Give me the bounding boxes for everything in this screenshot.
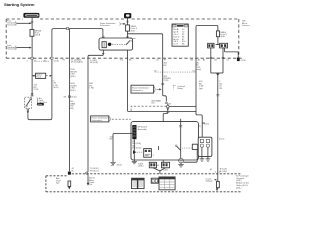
- legend table B (bottom left): [138, 178, 144, 188]
- svg-text:30 A: 30 A: [220, 35, 225, 38]
- in-line connector ticks on fused branch: [161, 84, 164, 85]
- connector (black) at border junction: [237, 58, 247, 62]
- battery positive labels above bottom box: [220, 169, 228, 173]
- svg-text:S204: S204: [204, 123, 210, 125]
- splice pack callout between wires: [32, 73, 52, 79]
- svg-text:(go): (go): [199, 88, 203, 90]
- PNP gear selector arrow: [133, 150, 143, 154]
- ignition switch output loop wire: [27, 30, 52, 120]
- connector (dark) where ignition1 wire enters bottom box: [68, 168, 75, 175]
- wires merging below PNP connectors: [153, 168, 169, 174]
- PNP right contact branch (pin stub and contact wire): [175, 119, 182, 159]
- wire: battery feed (left vertical): [31, 18, 33, 93]
- callout: Power Distribution Schematics (mid): [131, 85, 162, 93]
- starter solenoid S terminal arrow: [87, 174, 96, 186]
- wire label 1740 OG (lower): [70, 83, 77, 92]
- svg-text:RD: RD: [152, 103, 156, 105]
- wire: ignition feed top corner to long horizontal: [52, 29, 103, 38]
- PNP second ground branch: [110, 134, 133, 167]
- svg-text:Sys: Sys: [56, 183, 59, 185]
- starter relay (in underhood fuse block): [99, 38, 133, 50]
- title Starting System: [4, 2, 35, 7]
- svg-text:Starting System: Starting System: [4, 2, 35, 7]
- wire: fuse to terminal tee: [216, 37, 221, 45]
- ignition switch position list with START highlighted: [37, 97, 48, 106]
- PNP switch name text: [138, 126, 148, 131]
- wire: fused feed branch to right (horizontal): [128, 34, 163, 58]
- terminal block 2 (two cavities): [220, 43, 228, 48]
- fuse MEGA (left): [30, 30, 42, 37]
- svg-text:Lk G: Lk G: [173, 44, 178, 46]
- starter double ground: [200, 156, 211, 161]
- PNP ground lead (left block down): [132, 139, 144, 167]
- bottom dashed box left border: [45, 176, 47, 192]
- svg-text:Schematics: Schematics: [7, 48, 16, 51]
- svg-text:G102: G102: [117, 164, 123, 166]
- splice node S110 on ignition1 wire: [64, 96, 78, 99]
- PNP internal contact module: [144, 149, 155, 158]
- wire: fused branch elbow to A/T node: [158, 58, 168, 105]
- svg-text:Connect: Connect: [242, 24, 250, 27]
- wire label 250 RD (battery feed): [34, 85, 39, 91]
- PNP internal text column: [132, 141, 141, 150]
- fuse SBA 6 (top right): [216, 31, 227, 38]
- stub above contact module: [157, 146, 159, 150]
- relay bottom-left pin with connector arrow: [88, 50, 105, 58]
- theft deterrent text in bottom box: [56, 177, 61, 184]
- connector circle where crank wire enters bottom box: [86, 168, 99, 174]
- svg-text:(4.8L): (4.8L): [236, 187, 242, 189]
- wire: relay load output down and across: [128, 50, 197, 111]
- svg-text:C100: C100: [54, 60, 60, 62]
- svg-text:RD: RD: [164, 65, 168, 67]
- wire: crank relay output (to PNP switch): [87, 58, 89, 172]
- svg-text:C100: C100: [241, 60, 247, 62]
- interior dotted tie line: [154, 58, 201, 72]
- relay pin ticks (top left): [102, 36, 104, 37]
- wire label 5 YE (ignition feed): [53, 80, 59, 89]
- wire label 2 RD (battery positive): [219, 81, 223, 90]
- connector ticks where wires cross C100 row: [31, 57, 53, 59]
- latch element (small box on battery cable): [192, 144, 197, 149]
- dotted link to latch element: [182, 147, 192, 149]
- battery element on positive cable: [216, 181, 220, 191]
- svg-text:(6.0L): (6.0L): [71, 97, 77, 99]
- connector dots at battery cable crossing: [210, 169, 220, 172]
- svg-text:(4.8L): (4.8L): [70, 76, 76, 78]
- PNP connector block (black): [132, 125, 136, 139]
- wire: battery cable (right, to starter): [196, 25, 218, 137]
- svg-text:30 (6.0L): 30 (6.0L): [90, 62, 99, 64]
- svg-text:RN (6.0L): RN (6.0L): [132, 148, 141, 150]
- node: A/T splice circle: [167, 105, 170, 108]
- underhood fuse block dashed border top: [6, 18, 239, 20]
- wire: battery positive main (long vertical): [216, 74, 219, 188]
- A/T dashed branch from relay output: [131, 99, 172, 111]
- svg-text:Relay: Relay: [177, 88, 183, 90]
- svg-text:Start: Start: [38, 103, 43, 106]
- bottom dashed box bottom border: [46, 191, 241, 193]
- wire: power feed through SBA fuse: [126, 18, 128, 38]
- svg-text:Voltage: Voltage: [206, 180, 214, 183]
- wire: node to battery cable junction (right): [169, 106, 196, 108]
- svg-text:RD: RD: [219, 88, 223, 90]
- coil element on ignition1 wire: [68, 181, 71, 190]
- svg-text:2 RD: 2 RD: [164, 80, 169, 82]
- svg-text:Schematics: Schematics: [92, 119, 103, 122]
- callout: latched relay note (dashed): [173, 85, 185, 90]
- power distribution icon (black): [124, 13, 131, 18]
- connector face chart (bottom middle): [159, 177, 175, 190]
- svg-text:(amp): (amp): [196, 69, 202, 71]
- underhood fuse block dashed border left: [5, 19, 7, 58]
- crank position sensor (circle): [179, 158, 184, 163]
- legend table A (bottom left): [132, 178, 138, 188]
- connector label at C100 for crank wire: [78, 59, 98, 64]
- connector labels at fused branch C100 crossing: [156, 59, 167, 61]
- svg-text:(6.0L): (6.0L): [70, 90, 76, 92]
- callout: Power Distribution Schematics (left of PNP): [91, 116, 131, 122]
- svg-text:Schematics: Schematics: [100, 24, 110, 27]
- svg-text:(4.8L): (4.8L): [138, 166, 144, 168]
- wire label 302 RD/WH lower: [164, 76, 172, 82]
- wire: node drop into PNP switch (jog left): [163, 108, 169, 162]
- wire label on battery cable (right): [199, 81, 204, 90]
- wire: terminal drops merging to battery positive: [203, 48, 230, 76]
- callout: Fuse Distribution Schematics (lower): [7, 45, 32, 51]
- svg-text:125 A: 125 A: [35, 34, 41, 37]
- svg-text:1 RD: 1 RD: [89, 88, 94, 90]
- fuse block legend table: [172, 24, 188, 46]
- callout: Power Distribution Schematics (top): [100, 22, 126, 27]
- svg-text:C100: C100: [163, 170, 169, 172]
- fuse block boundary / connector row C100 (bottom dashed): [6, 57, 244, 59]
- svg-text:frame: frame: [219, 137, 225, 140]
- callout: Fuse Distribution Schematics (upper): [7, 21, 32, 27]
- underhood fuse block dashed border right: [238, 19, 240, 57]
- wire label rows left of terminals: [196, 62, 202, 71]
- TBC note top right: [242, 21, 250, 27]
- ignition switch (dashed box with contact): [25, 97, 32, 108]
- svg-text:Coil: Coil: [89, 184, 93, 186]
- wire label block below splice: [69, 101, 76, 110]
- svg-text:Assembly: Assembly: [138, 128, 148, 131]
- wire: ignition 1 feed (long vertical to starter enable): [68, 29, 70, 172]
- svg-text:Schematics: Schematics: [132, 89, 143, 92]
- connector square on horizontal run: [67, 28, 69, 30]
- svg-text:30 A: 30 A: [78, 60, 83, 63]
- svg-text:40 A: 40 A: [131, 29, 136, 32]
- bottom dashed box (starter circuit) top border: [46, 174, 241, 176]
- twin connector box (bottom middle): [151, 178, 158, 183]
- crank voltage arrow label: [206, 177, 217, 182]
- connector C100 marks on battery feed: [27, 59, 60, 62]
- starter frame label: [219, 137, 225, 140]
- svg-text:Schematics: Schematics: [7, 23, 16, 26]
- PNP output connectors C1 C2 (x-boxes): [149, 162, 169, 168]
- wire label 1740 GR (upper): [70, 69, 77, 78]
- wire label 5 RD/WH: [89, 83, 94, 89]
- connector labels at relay output C100 crossing: [120, 60, 132, 62]
- park/neutral position switch (box): [131, 122, 198, 160]
- svg-text:(4.8L): (4.8L): [69, 108, 75, 110]
- svg-text:PR (6.0L): PR (6.0L): [90, 170, 99, 172]
- starter motor assembly (box): [198, 137, 212, 156]
- callout list: to passenger compartment: [236, 174, 249, 189]
- connector labels on ignition1 wire at C100: [63, 59, 80, 63]
- battery junction block header (black): [23, 13, 39, 18]
- terminal block 1 (two cavities): [208, 43, 214, 48]
- pin label right of relay fuse wire: [130, 37, 137, 42]
- svg-text:(6.0L): (6.0L): [53, 87, 59, 89]
- ground below crank sensor: [178, 163, 184, 167]
- svg-text:B (4.8L): B (4.8L): [220, 171, 228, 173]
- connector arrow into ignition switch: [31, 93, 34, 96]
- wire label 302 RD upper: [164, 63, 168, 67]
- wire: terminal 2 to TBC dashed border: [225, 48, 239, 58]
- fuse SBA 4 (center): [126, 25, 138, 33]
- svg-text:2 RD: 2 RD: [34, 89, 39, 91]
- wire: latch element down to crank sensor: [183, 149, 197, 162]
